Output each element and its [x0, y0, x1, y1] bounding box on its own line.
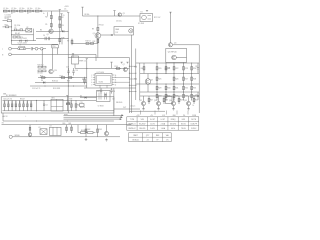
svg-text:10u: 10u: [38, 8, 41, 10]
wire right vert x33: [33, 29, 35, 41]
box aux: [72, 54, 79, 64]
wire row y34.8: [12, 34, 34, 36]
ferrite bead FB2: [16, 10, 18, 12]
wire feedback corner: [3, 113, 114, 121]
svg-text:5VSB: 5VSB: [192, 115, 196, 117]
svg-text:R28: R28: [193, 78, 196, 80]
label rail note: [18, 43, 28, 45]
resistor R24: [191, 63, 196, 74]
svg-text:R27: R27: [185, 78, 188, 80]
label vref: [79, 61, 86, 63]
snubber cell 6: [23, 100, 25, 110]
label terminal N: [2, 54, 4, 56]
svg-text:1k: 1k: [193, 105, 195, 107]
table bom table: [129, 133, 172, 142]
transistor Q2: [47, 29, 54, 36]
power flag mid: [72, 54, 74, 58]
wire row y88: [84, 87, 136, 89]
wire opto feed: [11, 26, 26, 41]
snubber cell 3: [11, 100, 13, 110]
svg-text:SBL2040: SBL2040: [116, 102, 122, 104]
wire ic bottom stubs: [100, 85, 107, 88]
ferrite bead FB4: [32, 10, 34, 12]
label chain v2: [27, 13, 29, 15]
svg-text:180-265: 180-265: [139, 128, 145, 130]
label chain v3: [43, 13, 45, 15]
svg-text:C4: C4: [43, 35, 45, 37]
capacitor C14: [72, 68, 78, 76]
ic U1 pins right: [112, 75, 114, 85]
resistor R15: [82, 77, 85, 85]
wire rail y86: [30, 85, 87, 87]
svg-text:Q2: Q2: [47, 34, 49, 36]
svg-text:R2: R2: [61, 17, 63, 19]
label bank note: [80, 107, 85, 109]
svg-text:66.5kHz: 66.5kHz: [170, 123, 176, 125]
svg-text:K2: K2: [39, 127, 41, 129]
svg-text:R51: R51: [134, 79, 137, 81]
fuse F1: [18, 45, 31, 50]
svg-text:D8: D8: [113, 99, 115, 101]
svg-text:R43: R43: [70, 99, 73, 101]
wire drop x62: [61, 39, 63, 45]
svg-text:R60: R60: [63, 123, 66, 125]
inductor L4: [27, 8, 32, 12]
svg-text:12V: 12V: [116, 32, 119, 34]
svg-text:K1: K1: [141, 12, 143, 14]
wire chain col a: [50, 11, 52, 15]
wire grid rail y73: [140, 73, 199, 75]
label fb: [2, 116, 8, 118]
terminal J3: [35, 47, 38, 50]
resistor R17: [60, 75, 67, 78]
svg-text:D6: D6: [41, 80, 43, 82]
resistor R19a: [86, 41, 94, 45]
label y82 note: [52, 81, 58, 83]
node icbus: [86, 68, 87, 69]
transistor Q8: [145, 74, 153, 93]
wire mid row2: [36, 38, 68, 40]
svg-text:I-OUT: I-OUT: [161, 119, 166, 121]
transistor Q11: [105, 125, 109, 136]
svg-text:F1: F1: [20, 45, 22, 47]
svg-text:15: 15: [115, 77, 117, 79]
svg-text:R22: R22: [175, 68, 178, 70]
snubber cell 1: [4, 100, 6, 110]
diode D10: [111, 34, 113, 36]
resistor R44: [75, 100, 80, 111]
label chain note: [5, 15, 12, 19]
ic U1 pins left: [93, 75, 95, 85]
svg-text:BOM-01: BOM-01: [132, 139, 138, 141]
resistor R35: [165, 92, 170, 101]
wire br rail: [129, 110, 165, 112]
wire bus B4: [135, 49, 137, 101]
resistor R3b: [59, 36, 65, 45]
svg-text:R14: R14: [115, 66, 118, 68]
label plus: [25, 116, 27, 118]
svg-text:R19 C9: R19 C9: [86, 41, 91, 43]
svg-text:82.5%: 82.5%: [181, 123, 186, 125]
wire ladder rung 4: [129, 85, 137, 86]
capacitor C13: [66, 66, 70, 75]
svg-text:10u: 10u: [30, 8, 33, 10]
svg-text:V-OUT: V-OUT: [150, 119, 155, 121]
resistor R9: [92, 24, 104, 30]
label output stage: [168, 51, 177, 53]
label under u2: [15, 33, 20, 35]
inductor L2: [11, 8, 16, 12]
label bank title: [6, 95, 17, 97]
svg-text:CCM-PF: CCM-PF: [190, 123, 197, 125]
svg-text:C2: C2: [14, 27, 16, 29]
resistor R4: [45, 12, 52, 21]
transistor Q20: [49, 69, 57, 73]
svg-text:R29: R29: [158, 88, 161, 90]
resistor R33: [191, 84, 196, 93]
svg-text:EFF: EFF: [182, 119, 185, 121]
resistor R25: [156, 73, 161, 84]
snubber cell 4: [15, 100, 17, 110]
svg-text:R15: R15: [82, 79, 85, 81]
transistor Q4: [168, 43, 176, 47]
resistor R31: [173, 84, 178, 93]
wire br top: [140, 95, 199, 97]
svg-text:D4: D4: [46, 105, 48, 107]
snubber cell 8: [30, 100, 32, 110]
svg-text:C19: C19: [80, 102, 83, 104]
resistor R63: [97, 125, 102, 137]
svg-text:R31: R31: [175, 88, 178, 90]
svg-text:R2: R2: [17, 29, 19, 31]
capacitor C5: [31, 47, 35, 50]
svg-text:R17: R17: [60, 75, 63, 77]
svg-text:Q8: Q8: [151, 80, 153, 82]
diode D2: [62, 30, 64, 32]
svg-text:L: L: [2, 49, 3, 51]
wire table stubs: [141, 111, 189, 115]
wire left ic bus: [86, 60, 88, 88]
label U1: [97, 72, 104, 74]
svg-text:R18 10k: R18 10k: [52, 81, 58, 83]
label rail86 b: [32, 88, 41, 90]
resistor R34: [156, 92, 161, 101]
svg-text:Q6 IRF540: Q6 IRF540: [168, 51, 177, 53]
resistor R5: [45, 22, 52, 29]
resistor R21b: [38, 70, 47, 75]
terminal J2: [9, 53, 96, 56]
inductor L3: [19, 8, 24, 12]
wire drop x78: [77, 125, 79, 133]
inductor L5: [35, 8, 40, 12]
svg-text:OUT: OUT: [123, 107, 126, 109]
bridge box BR1: [51, 97, 63, 111]
svg-text:10u: 10u: [22, 8, 25, 10]
svg-text:R50: R50: [134, 67, 137, 69]
terminal J1: [9, 47, 18, 50]
label ntc: [5, 18, 9, 20]
power flag x147: [146, 10, 148, 11]
svg-text:U3: U3: [50, 126, 52, 128]
svg-text:SMPS-02: SMPS-02: [128, 128, 135, 130]
power flag x111: [110, 62, 112, 68]
capacitor C4: [43, 35, 49, 40]
wire left bus vertical: [11, 20, 13, 45]
gnd ic: [104, 94, 107, 97]
diode D5 led: [80, 95, 97, 98]
resistor R27: [183, 73, 188, 84]
svg-text:C20-C27 2n2: C20-C27 2n2: [3, 99, 12, 101]
wire row y68: [84, 67, 129, 69]
wire bus B2b: [97, 15, 98, 57]
resistor R40: [141, 63, 145, 74]
wire ladder rung 3: [129, 78, 137, 79]
wire signal arrow 2: [64, 116, 123, 118]
svg-text:C30: C30: [167, 68, 170, 70]
resistor R4s: [13, 36, 23, 39]
label grid left b: [134, 79, 137, 81]
label bottom mid: [123, 107, 126, 109]
resistor R8: [81, 7, 89, 16]
svg-text:R25: R25: [158, 78, 161, 80]
svg-text:R47: R47: [150, 100, 153, 102]
power flag x114: [113, 11, 115, 16]
svg-text:SMPS-01: SMPS-01: [128, 123, 135, 125]
ic U1 box: [95, 73, 112, 85]
diode D3s: [25, 40, 27, 42]
ferrite bead FB3: [24, 10, 26, 12]
svg-text:VAL: VAL: [166, 134, 169, 137]
capacitor C19: [80, 102, 85, 107]
wire rail y124: [2, 124, 132, 126]
label table top f: [192, 115, 196, 117]
relay K2: [39, 127, 48, 134]
svg-text:RV1: RV1: [5, 25, 8, 27]
label T2: [98, 106, 104, 108]
svg-text:D5: D5: [80, 95, 82, 97]
svg-text:R4: R4: [45, 17, 47, 19]
ferrite bead FB1: [8, 10, 10, 12]
svg-text:10u: 10u: [14, 8, 17, 10]
label table top e: [183, 115, 186, 117]
wire grid rail y63: [136, 62, 199, 64]
transistor Q15: [184, 96, 198, 110]
svg-text:C31: C31: [195, 66, 198, 68]
svg-text:R6: R6: [40, 29, 42, 31]
label relay: [154, 17, 161, 19]
svg-text:VREF 2.5: VREF 2.5: [79, 61, 86, 63]
ferrite bead FB5: [40, 10, 42, 12]
resistor R20: [156, 63, 161, 74]
label q array right: [193, 105, 195, 107]
label chain v1: [11, 13, 13, 15]
snubber cell 5: [19, 100, 21, 110]
box aux2: [50, 126, 62, 136]
label rail y124: [2, 123, 5, 125]
resistor R14: [115, 66, 122, 69]
transistor Q7: [123, 64, 128, 72]
diode D2s: [19, 40, 21, 42]
power flag bus B1: [67, 13, 69, 39]
svg-text:SENSE: SENSE: [15, 135, 20, 137]
svg-text:R7: R7: [67, 41, 69, 43]
wire rail y44.4: [12, 43, 59, 45]
label bank inner: [3, 99, 12, 101]
wire aux drop: [75, 64, 84, 68]
svg-text:R*: R*: [157, 139, 159, 141]
svg-text:R63: R63: [99, 129, 102, 131]
svg-text:T1: T1: [72, 54, 74, 56]
power flag x61: [60, 14, 62, 31]
wire bus B6: [139, 63, 141, 100]
svg-text:+HV 0V: +HV 0V: [2, 116, 8, 118]
diode D1: [14, 27, 22, 31]
svg-text:R16: R16: [40, 76, 43, 78]
wire q5 out: [101, 34, 111, 36]
svg-text:85-265V: 85-265V: [139, 123, 146, 125]
resistor R58: [78, 130, 96, 134]
wire ic to ladder b: [114, 81, 130, 84]
svg-text:R5: R5: [45, 24, 47, 26]
transistor Q5: [93, 33, 101, 39]
label under row34: [20, 38, 27, 40]
snubber cell 7: [27, 100, 29, 110]
wire right edge bus: [198, 45, 200, 113]
label left r1: [14, 25, 20, 27]
svg-text:10u: 10u: [6, 8, 9, 10]
power flag x170: [169, 12, 171, 13]
svg-text:1n: 1n: [11, 13, 13, 15]
wire right drop x170: [170, 13, 172, 44]
label grid left a: [134, 67, 137, 69]
box tl431: [166, 95, 173, 104]
label varistor: [5, 25, 8, 27]
thermistor NTC1: [3, 20, 12, 22]
svg-text:R32: R32: [185, 88, 188, 90]
transistor Q3: [118, 13, 125, 17]
svg-text:PART: PART: [133, 134, 137, 137]
wire bus B3: [131, 35, 133, 113]
power flag chain: [59, 10, 61, 11]
svg-text:R3: R3: [61, 25, 63, 27]
svg-text:BR1: BR1: [52, 97, 55, 99]
svg-text:R30-37: R30-37: [20, 99, 25, 101]
svg-text:+12V: +12V: [136, 115, 140, 117]
power flag icbus: [86, 59, 88, 60]
svg-text:C13: C13: [66, 66, 69, 68]
wire grid rail y84: [136, 83, 199, 85]
label table top a: [136, 115, 140, 117]
wire row y43: [72, 43, 98, 45]
label U1 pin numbers: [91, 75, 116, 87]
capacitor C8: [110, 88, 115, 94]
svg-text:R8 56k: R8 56k: [85, 14, 90, 16]
wire c10 drop: [57, 48, 59, 55]
transistor Q12: [139, 96, 153, 110]
svg-text:D7 4148: D7 4148: [138, 23, 144, 25]
resistor R30: [165, 84, 170, 93]
resistor R61: [69, 123, 73, 133]
diode D4: [43, 100, 48, 111]
svg-text:+5V: +5V: [150, 115, 153, 117]
label b1 top: [64, 6, 68, 10]
svg-text:R33: R33: [193, 88, 196, 90]
capacitor C32: [195, 92, 199, 100]
capacitor C7: [98, 88, 103, 94]
ic U1 inner: [97, 75, 110, 84]
table spec table: [127, 117, 199, 130]
svg-text:C14: C14: [75, 70, 78, 72]
resistor R28: [191, 73, 196, 84]
label q array left: [130, 106, 135, 108]
svg-text:D9 C16: D9 C16: [38, 73, 43, 75]
wire r-divider drop: [59, 30, 61, 36]
svg-text:R20: R20: [158, 68, 161, 70]
wire ladder rung 1: [129, 66, 137, 67]
svg-text:Q20: Q20: [54, 70, 57, 72]
transformer T2 box: [97, 91, 111, 102]
label relay2: [138, 23, 144, 25]
label table top d: [173, 115, 177, 117]
svg-text:13: 13: [115, 82, 117, 84]
gnd bottom1: [85, 138, 88, 141]
svg-text:16: 16: [115, 75, 117, 77]
capacitor C30: [165, 66, 171, 74]
svg-text:Q13: Q13: [154, 100, 157, 102]
svg-text:R46 1k: R46 1k: [80, 107, 85, 109]
wire n drop: [95, 54, 97, 61]
resistor R29: [156, 84, 161, 93]
label c6: [116, 21, 122, 23]
fan symbol M1: [129, 29, 133, 33]
svg-text:Q4: Q4: [174, 43, 176, 45]
label terminal L: [2, 49, 3, 51]
resistor R36: [173, 92, 178, 101]
wire row y16: [83, 15, 141, 17]
svg-text:Q12: Q12: [139, 100, 142, 102]
wire grid rail y92: [140, 91, 199, 93]
svg-text:-12V: -12V: [162, 115, 165, 117]
resistor R62: [85, 125, 90, 137]
svg-text:1n: 1n: [43, 13, 45, 15]
resistor R17b: [67, 77, 74, 83]
svg-text:U1 TL494: U1 TL494: [97, 72, 104, 74]
svg-text:78.0%: 78.0%: [181, 128, 186, 130]
label rail86 c: [53, 88, 60, 90]
wire mid row: [36, 30, 68, 32]
resistor R60: [63, 123, 68, 133]
svg-text:T2: T2: [97, 91, 99, 93]
svg-text:+310V: +310V: [64, 6, 68, 8]
svg-text:R40: R40: [141, 68, 144, 70]
label C10 box: [52, 45, 59, 48]
relay K1: [140, 12, 153, 22]
resistor R45: [66, 102, 71, 105]
resistor R2: [59, 15, 64, 23]
wire bank rail bottom: [3, 110, 114, 112]
svg-text:Q15: Q15: [184, 100, 187, 102]
snubber cell 2: [8, 100, 10, 110]
terminal J5: [9, 135, 120, 138]
wire row y40.7: [12, 40, 37, 42]
wire chain col b: [59, 11, 61, 15]
wire ladder rung 5: [129, 91, 137, 92]
svg-text:R26: R26: [175, 78, 178, 80]
svg-text:Q12-15: Q12-15: [130, 106, 135, 108]
transistor Q10: [28, 125, 32, 137]
label table top c: [162, 115, 165, 117]
resistor R13: [93, 39, 99, 44]
